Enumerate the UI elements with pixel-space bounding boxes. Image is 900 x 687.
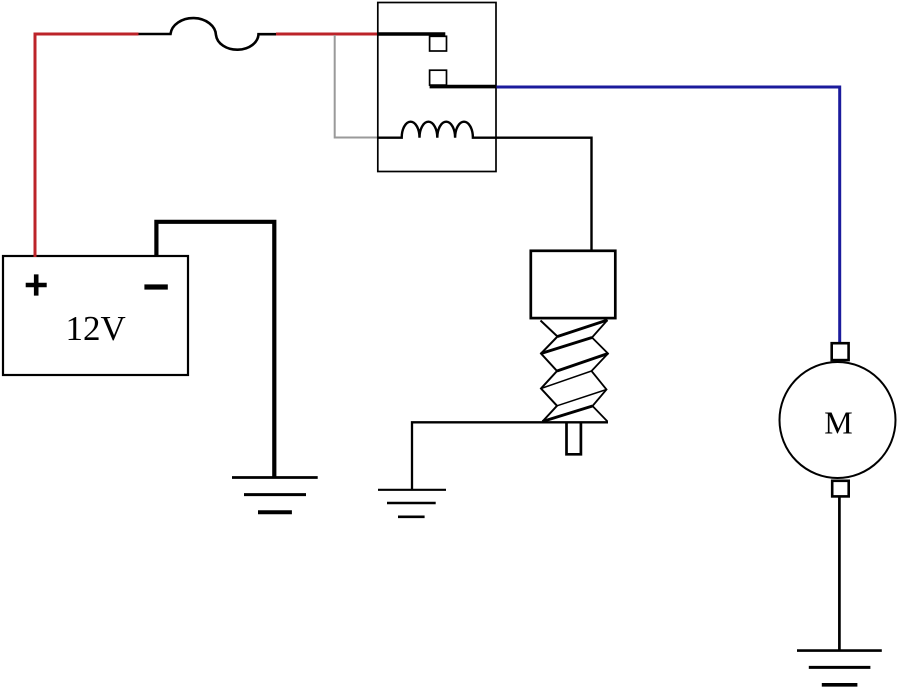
ground symbol battery line3 (258, 510, 292, 514)
wire motor to ground (838, 496, 841, 651)
relay contact input arm (377, 32, 445, 36)
bellows winding 3 (557, 354, 608, 372)
ground symbol switch line1 (378, 489, 446, 491)
motor terminal bottom (832, 481, 849, 497)
bellows left edge (541, 321, 558, 422)
ground symbol battery line2 (244, 493, 306, 496)
ground symbol motor line1 (797, 649, 882, 652)
wire battery positive red (35, 34, 139, 257)
wire fuse to relay red (276, 33, 379, 36)
ground symbol motor line2 (809, 666, 871, 669)
bellows winding 6 (543, 406, 593, 422)
relay contact terminal lower square (430, 70, 447, 85)
svg-text:M: M (824, 405, 852, 441)
wire relay to motor blue (497, 87, 840, 343)
ground symbol switch line3 (398, 515, 425, 518)
bellows winding 5 (557, 390, 607, 406)
ground symbol motor line3 (822, 683, 858, 687)
relay contact output arm (430, 85, 497, 89)
battery plus label (26, 274, 47, 295)
ground symbol battery line1 (232, 476, 318, 479)
battery minus label (144, 284, 167, 289)
bellows winding 1 (558, 320, 608, 337)
wire switch to ground (412, 422, 608, 489)
ground symbol switch line2 (387, 502, 436, 504)
svg-text:12V: 12V (66, 309, 126, 348)
wire battery negative (156, 222, 274, 478)
motor M1 body (780, 362, 896, 478)
switch stem (567, 422, 581, 454)
pressure switch S1 body (531, 251, 616, 318)
bellows right edge (592, 320, 609, 422)
battery B1 case (3, 256, 188, 375)
fuse F1 (139, 18, 277, 50)
bellows winding 2 (541, 338, 592, 354)
relay coil L1 (378, 122, 592, 251)
motor terminal top (832, 343, 849, 360)
wire relay coil branch gray (335, 35, 379, 138)
bellows winding 4 (541, 371, 592, 389)
relay K1 case (378, 3, 496, 172)
relay contact terminal upper square (430, 36, 447, 51)
